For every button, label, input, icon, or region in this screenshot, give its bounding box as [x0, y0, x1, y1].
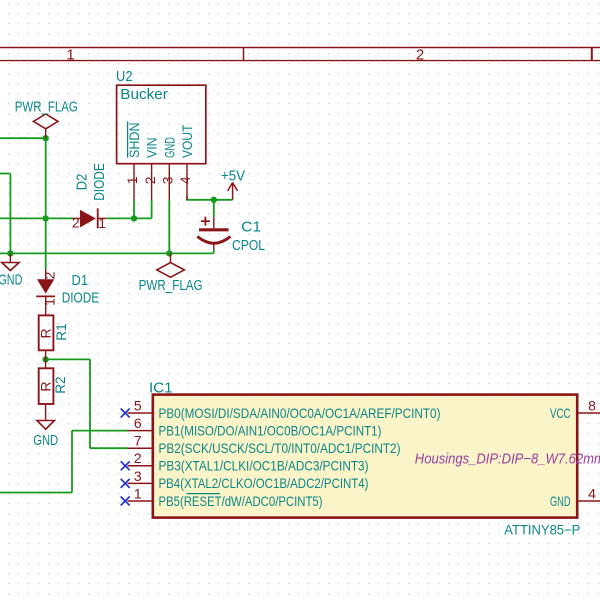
svg-text:C1: C1: [241, 218, 261, 235]
svg-text:PB4(XTAL2/CLKO/OC1B/ADC2/PCINT: PB4(XTAL2/CLKO/OC1B/ADC2/PCINT4): [159, 475, 369, 491]
svg-text:1: 1: [98, 215, 106, 231]
svg-text:VCC: VCC: [550, 405, 571, 421]
svg-text:5: 5: [134, 397, 142, 413]
svg-text:2: 2: [142, 176, 158, 184]
svg-text:R1: R1: [53, 323, 69, 341]
svg-text:GND: GND: [33, 432, 58, 449]
svg-text:6: 6: [134, 415, 142, 431]
svg-text:DIODE: DIODE: [62, 290, 99, 307]
svg-text:Housings_DIP:DIP−8_W7.62mm: Housings_DIP:DIP−8_W7.62mm: [415, 451, 600, 468]
svg-text:GND: GND: [550, 493, 571, 509]
svg-text:D2: D2: [74, 174, 91, 191]
svg-text:PWR_FLAG: PWR_FLAG: [139, 277, 203, 294]
svg-text:PB5(RESET/dW/ADC0/PCINT5): PB5(RESET/dW/ADC0/PCINT5): [159, 493, 323, 509]
svg-text:D1: D1: [72, 272, 89, 289]
svg-text:+5V: +5V: [221, 168, 245, 185]
svg-text:VIN: VIN: [144, 138, 160, 159]
svg-text:PB2(SCK/USCK/SCL/T0/INT0/ADC1/: PB2(SCK/USCK/SCL/T0/INT0/ADC1/PCINT2): [159, 440, 401, 456]
svg-text:7: 7: [134, 433, 142, 449]
svg-text:1: 1: [134, 485, 142, 501]
svg-text:2: 2: [72, 214, 80, 230]
svg-text:3: 3: [134, 468, 142, 484]
svg-text:8: 8: [588, 397, 596, 413]
svg-text:GND: GND: [161, 137, 177, 158]
svg-text:PB1(MISO/DO/AIN1/OC0B/OC1A/PCI: PB1(MISO/DO/AIN1/OC0B/OC1A/PCINT1): [159, 422, 382, 438]
svg-text:DIODE: DIODE: [91, 163, 108, 201]
svg-text:U2: U2: [116, 68, 133, 85]
svg-text:1: 1: [124, 176, 140, 184]
svg-text:2: 2: [134, 450, 142, 466]
svg-text:4: 4: [588, 485, 596, 501]
svg-text:PB3(XTAL1/CLKI/OC1B/ADC3/PCINT: PB3(XTAL1/CLKI/OC1B/ADC3/PCINT3): [159, 458, 369, 474]
svg-text:IC1: IC1: [149, 379, 173, 396]
svg-text:1: 1: [66, 47, 74, 64]
svg-text:R: R: [38, 328, 54, 338]
svg-text:Bucker: Bucker: [120, 86, 168, 103]
svg-text:VOUT: VOUT: [179, 124, 195, 158]
svg-text:2: 2: [416, 47, 424, 64]
svg-text:PB0(MOSI/DI/SDA/AIN0/OC0A/OC1A: PB0(MOSI/DI/SDA/AIN0/OC0A/OC1A/AREF/PCIN…: [159, 405, 441, 421]
svg-text:GND: GND: [0, 271, 23, 288]
svg-text:1: 1: [41, 298, 57, 306]
svg-text:SHDN: SHDN: [126, 123, 142, 159]
svg-text:2: 2: [41, 271, 57, 279]
svg-text:PWR_FLAG: PWR_FLAG: [15, 98, 78, 115]
svg-text:R2: R2: [52, 376, 68, 394]
svg-text:R: R: [38, 381, 54, 391]
svg-text:CPOL: CPOL: [232, 237, 265, 254]
svg-text:4: 4: [177, 176, 193, 184]
svg-text:3: 3: [160, 176, 176, 184]
svg-text:ATTINY85−P: ATTINY85−P: [504, 521, 580, 537]
